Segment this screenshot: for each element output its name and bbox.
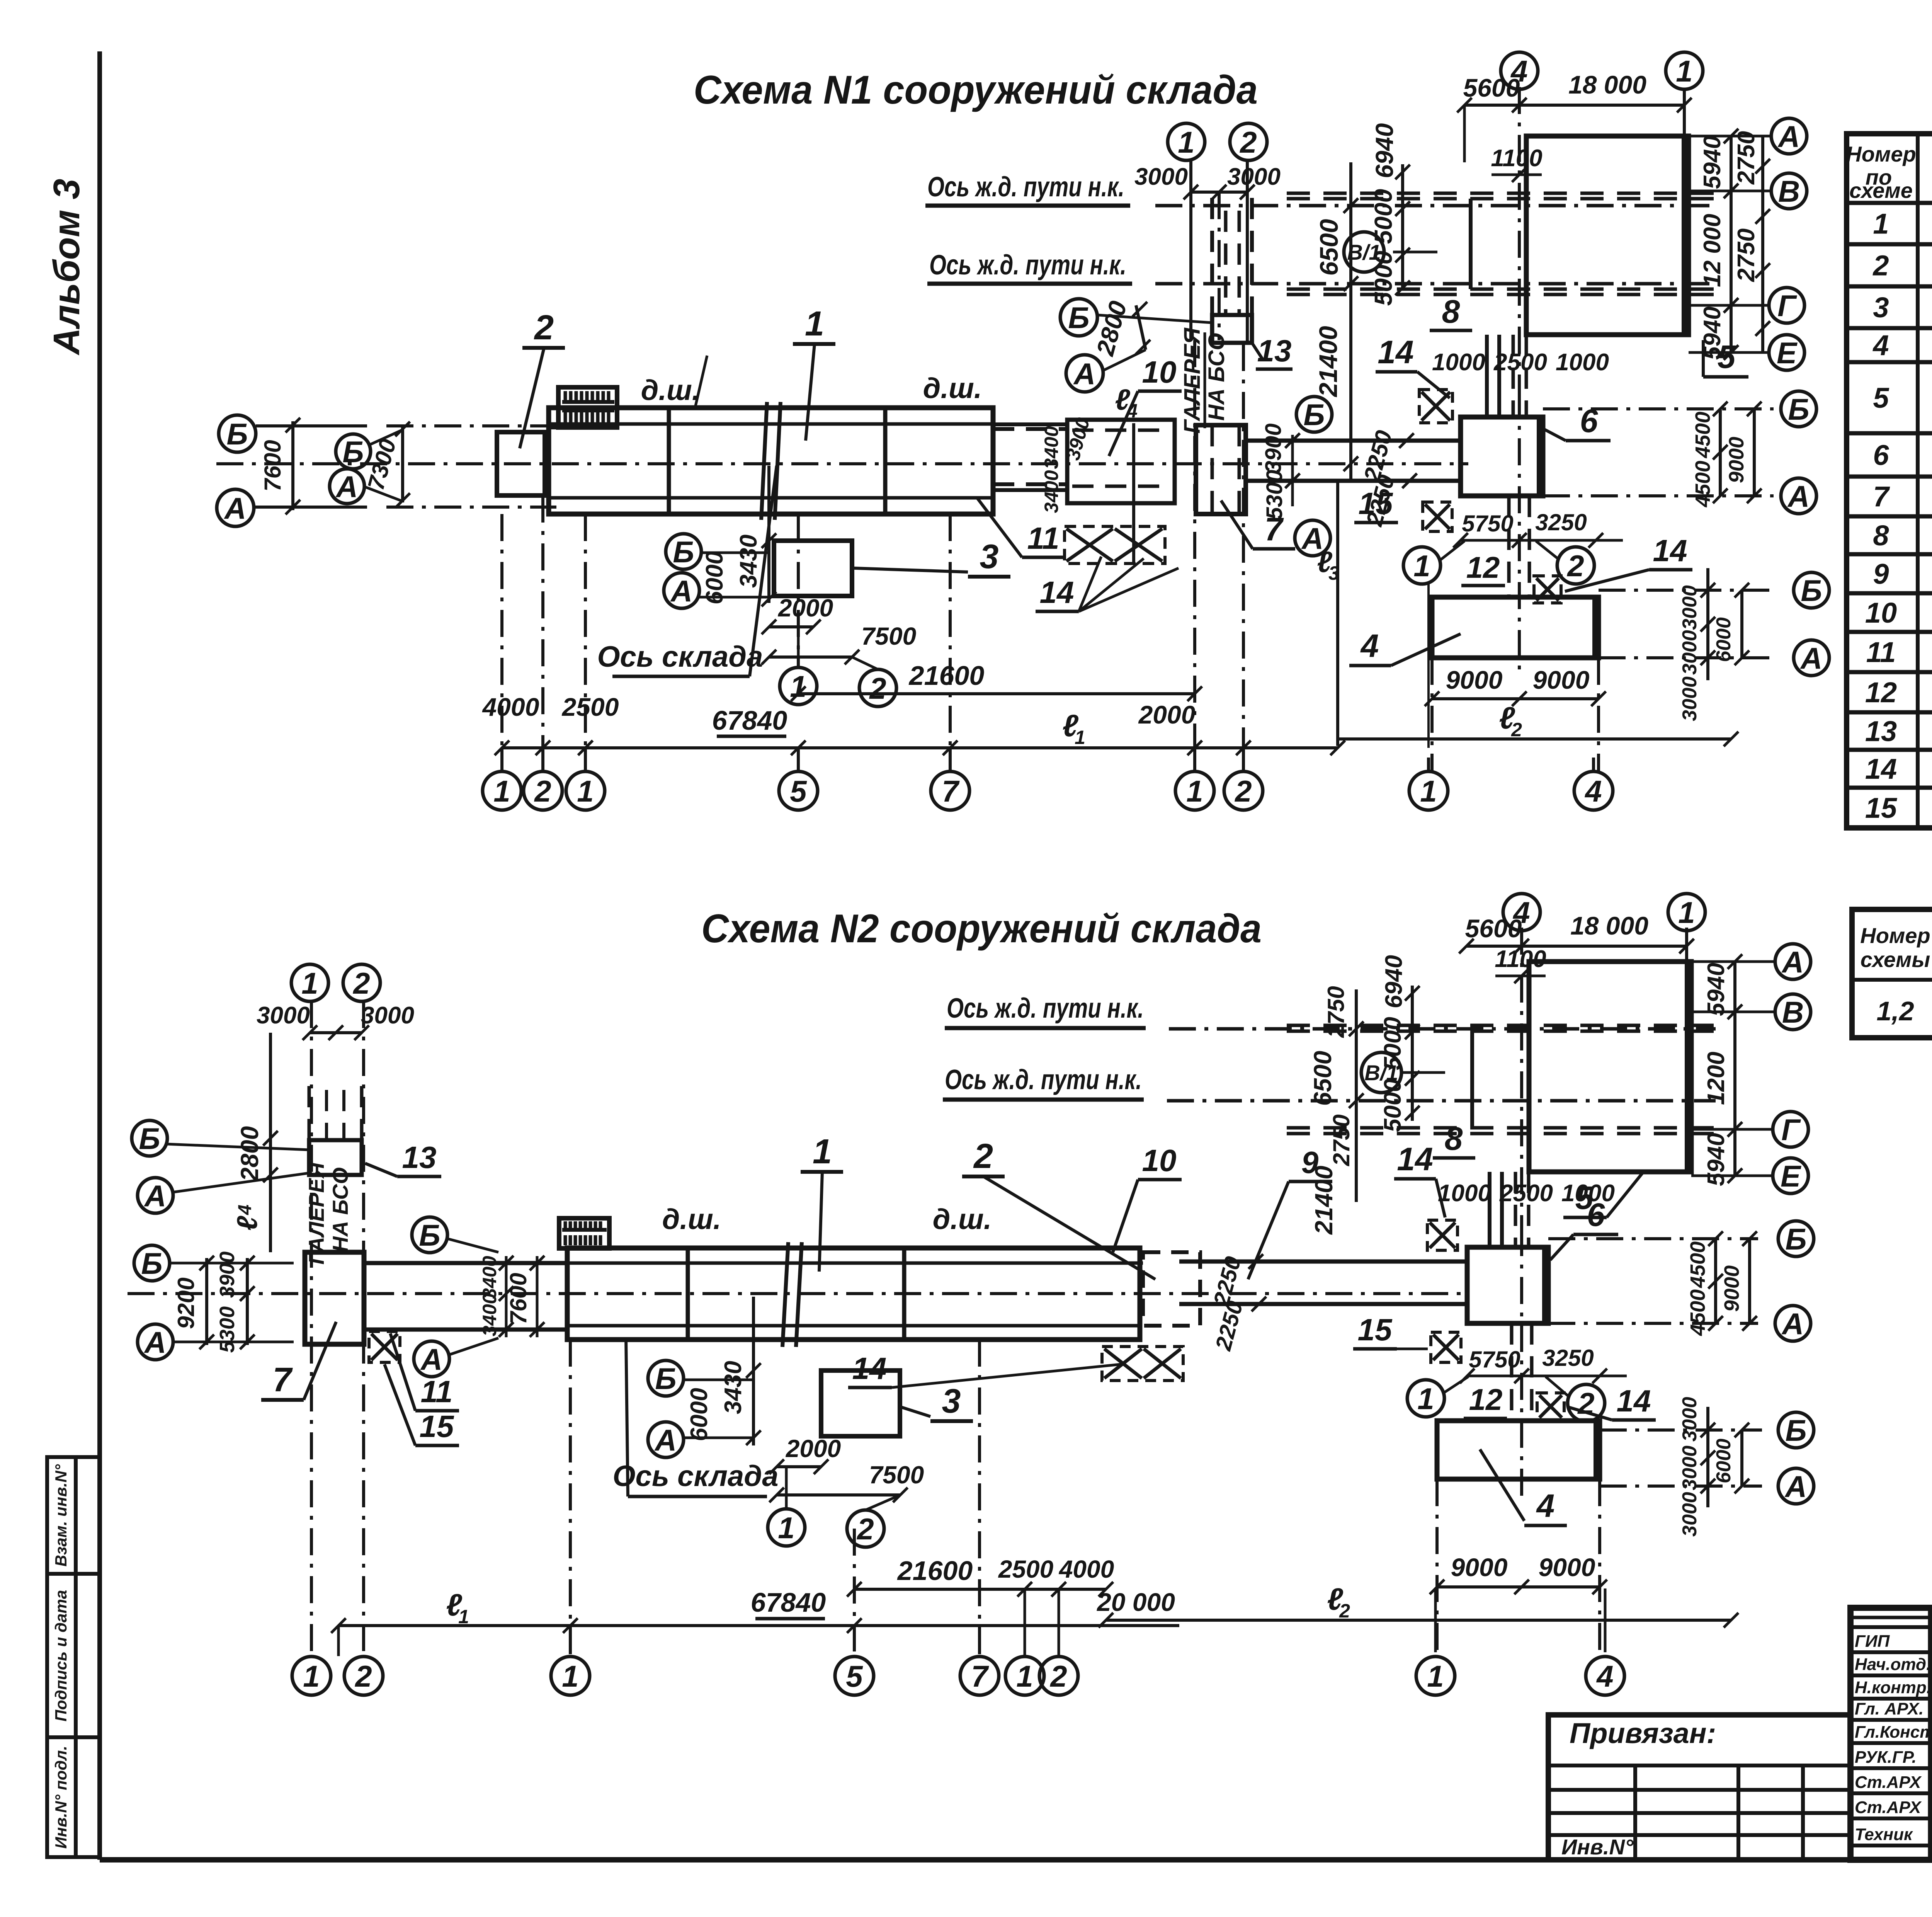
svg-text:5940: 5940 (1703, 1133, 1730, 1186)
svg-text:1: 1 (1678, 896, 1695, 930)
S2 main building (567, 1248, 1140, 1340)
svg-text:А: А (1784, 1469, 1807, 1503)
svg-text:Б: Б (141, 1246, 162, 1280)
svg-text:2500: 2500 (561, 693, 619, 721)
page frame bottom border (100, 1857, 1932, 1863)
S1 gallery to BSO (dashed) (1210, 198, 1214, 315)
svg-text:д.ш.: д.ш. (923, 372, 982, 404)
svg-text:5300: 5300 (216, 1306, 239, 1353)
S2 dims 4500 9000 4500 (1714, 1239, 1717, 1323)
svg-text:1: 1 (1873, 208, 1889, 240)
svg-text:9000: 9000 (1451, 1553, 1508, 1582)
svg-text:4: 4 (1126, 400, 1138, 422)
svg-text:11: 11 (1866, 636, 1896, 668)
svg-text:2750: 2750 (1733, 131, 1760, 185)
S2 right circles A V G E (1775, 944, 1811, 979)
svg-text:18 000: 18 000 (1568, 70, 1646, 99)
S2 centerline (128, 1292, 1468, 1295)
svg-text:А: А (335, 470, 358, 504)
S1 circle 2 mid (1557, 547, 1594, 584)
svg-text:Е: Е (1777, 336, 1798, 370)
S2 building 5 (1529, 962, 1691, 1172)
svg-text:7600: 7600 (260, 440, 286, 491)
S2 building 7 (305, 1252, 364, 1344)
explication table grid (1847, 134, 1932, 828)
S2 conveyor from building to 6 (1179, 1260, 1467, 1264)
svg-text:схемы: схемы (1861, 947, 1930, 972)
S1 hatch 14 lower (1534, 576, 1561, 603)
svg-text:9000: 9000 (1539, 1553, 1595, 1582)
svg-text:Б: Б (139, 1122, 160, 1156)
svg-text:Взам. инв.N°: Взам. инв.N° (52, 1464, 70, 1566)
svg-text:13: 13 (1865, 715, 1897, 747)
svg-text:3000: 3000 (1679, 1492, 1701, 1537)
S1 hatch 11 wide (1065, 526, 1165, 564)
svg-text:4500: 4500 (1686, 1289, 1709, 1336)
svg-text:3430: 3430 (735, 535, 762, 588)
S2 bottom circles (292, 1657, 331, 1695)
S2 vertical conveyor to 6 (1488, 1172, 1492, 1247)
svg-text:6: 6 (1873, 439, 1889, 471)
svg-text:6000: 6000 (686, 1388, 713, 1441)
svg-text:7: 7 (942, 774, 960, 808)
svg-text:3400: 3400 (1041, 470, 1062, 513)
svg-text:Подпись и дата: Подпись и дата (52, 1590, 70, 1721)
svg-text:ℓ: ℓ (231, 1216, 263, 1231)
S1 conveyor 9 horizontal (1247, 439, 1461, 443)
svg-text:1000: 1000 (1556, 349, 1609, 376)
svg-text:6940: 6940 (1371, 123, 1398, 178)
S1 l2 dim line (1338, 737, 1731, 741)
svg-text:21600: 21600 (908, 661, 985, 691)
svg-text:Ось ж.д. пути н.к.: Ось ж.д. пути н.к. (945, 1064, 1142, 1095)
svg-text:4: 4 (1596, 1659, 1613, 1693)
svg-text:15: 15 (1359, 486, 1393, 521)
svg-text:5600: 5600 (1465, 914, 1522, 943)
svg-text:Б: Б (1068, 301, 1089, 335)
svg-text:12: 12 (1865, 676, 1897, 708)
svg-text:1100: 1100 (1491, 145, 1542, 172)
S1 main storage building 1 (549, 408, 993, 514)
S2 l2 dim (1106, 1619, 1731, 1622)
S1 building vertical dividers (667, 408, 671, 514)
svg-text:1: 1 (1676, 54, 1692, 88)
svg-text:3000: 3000 (1679, 1445, 1701, 1490)
svg-text:3: 3 (1328, 562, 1339, 584)
svg-text:5: 5 (846, 1659, 863, 1693)
svg-text:А: А (670, 574, 692, 608)
S2 hatch lower (1537, 1393, 1564, 1420)
svg-text:5940: 5940 (1699, 136, 1726, 189)
svg-text:8: 8 (1873, 519, 1889, 552)
S1 building5 rail centerline verticals (1518, 87, 1521, 390)
S2 l1 dim (338, 1624, 1179, 1627)
svg-text:7500: 7500 (861, 622, 916, 650)
S1 mid circles 1 2 (780, 667, 817, 705)
svg-text:1: 1 (1016, 1659, 1033, 1693)
svg-text:14: 14 (1617, 1384, 1651, 1418)
svg-text:5940: 5940 (1703, 963, 1730, 1016)
S2 break symbol (782, 1242, 788, 1347)
S1 rail axis 1 line (1155, 204, 1716, 208)
svg-text:Б: Б (419, 1218, 440, 1252)
svg-text:10: 10 (1865, 597, 1897, 629)
svg-text:5: 5 (1873, 382, 1889, 414)
svg-text:1000: 1000 (1432, 349, 1485, 376)
svg-text:4500: 4500 (1686, 1241, 1709, 1288)
svg-text:18 000: 18 000 (1570, 911, 1648, 940)
svg-text:д.ш.: д.ш. (662, 1203, 721, 1235)
svg-text:3400: 3400 (1041, 426, 1062, 469)
svg-text:6000: 6000 (1713, 617, 1735, 662)
S2 top circles 4 1 (1503, 894, 1540, 931)
svg-text:14: 14 (852, 1351, 887, 1386)
S1 vertical gallery 12 dashes (1507, 496, 1511, 597)
svg-text:7: 7 (1873, 481, 1890, 513)
svg-text:2000: 2000 (1138, 700, 1196, 729)
svg-text:1: 1 (778, 1511, 794, 1545)
svg-text:2000: 2000 (786, 1435, 841, 1462)
svg-text:3250: 3250 (1535, 509, 1587, 535)
svg-text:10: 10 (1142, 355, 1177, 389)
svg-text:Н.контр.: Н.контр. (1855, 1678, 1931, 1697)
svg-text:А: А (1800, 641, 1822, 675)
svg-text:Б: Б (226, 417, 248, 451)
svg-text:Номер: Номер (1846, 142, 1916, 166)
S2 dims 5940 1200 5940 (1733, 962, 1736, 1176)
svg-text:5: 5 (790, 774, 807, 808)
svg-text:А: А (420, 1342, 442, 1376)
S2 verticals through 5 (1520, 928, 1523, 1229)
svg-text:14: 14 (1378, 334, 1413, 370)
svg-text:А: А (224, 491, 246, 525)
svg-text:2: 2 (1872, 250, 1889, 282)
svg-text:2: 2 (1049, 1659, 1067, 1693)
svg-text:Б: Б (1785, 1413, 1806, 1447)
svg-text:6500: 6500 (1315, 219, 1343, 276)
title block outer (1850, 1608, 1932, 1860)
svg-text:3000: 3000 (361, 1002, 414, 1029)
svg-text:10: 10 (1142, 1143, 1177, 1178)
svg-text:1: 1 (1420, 774, 1437, 808)
S2 building 4 (1437, 1421, 1600, 1479)
S2 dashed box right end (1143, 1252, 1200, 1326)
svg-text:А: А (1787, 479, 1810, 513)
S2 gallery to BSO dashed (308, 1086, 311, 1140)
S1 building 2 (tension point) (497, 432, 545, 495)
svg-text:5750: 5750 (1462, 511, 1513, 536)
svg-text:6500: 6500 (1309, 1051, 1337, 1106)
S1 right axis circles A B G E (1771, 118, 1807, 154)
S1 dims 5940 2750 12000 2750 5940 (1730, 136, 1733, 352)
svg-text:Схема N2 сооружений склада: Схема N2 сооружений склада (701, 906, 1262, 951)
S2 mid circles 1 2 (768, 1509, 805, 1546)
svg-text:3000: 3000 (257, 1002, 310, 1029)
svg-text:6940: 6940 (1381, 955, 1407, 1008)
title block signature rows (1850, 1625, 1932, 1629)
svg-text:3000: 3000 (1679, 630, 1701, 675)
svg-text:1: 1 (577, 774, 594, 808)
S2 circles B A right of 6 (1548, 1237, 1758, 1240)
svg-text:14: 14 (1040, 575, 1074, 609)
svg-text:3: 3 (980, 537, 999, 575)
svg-text:7500: 7500 (869, 1461, 924, 1489)
svg-text:Гл. АРХ.: Гл. АРХ. (1855, 1699, 1923, 1718)
svg-text:Схема N1 сооружений склада: Схема N1 сооружений склада (694, 68, 1258, 112)
svg-text:ГАЛЕРЕЯ: ГАЛЕРЕЯ (304, 1162, 328, 1265)
svg-text:5: 5 (1718, 339, 1736, 375)
S1 rail axis 2 line (1155, 282, 1716, 286)
svg-text:НА БСО: НА БСО (1204, 333, 1229, 421)
S1 dim 21600 (798, 692, 1195, 695)
svg-text:Номер: Номер (1860, 923, 1930, 948)
svg-text:2750: 2750 (1733, 228, 1760, 282)
S1 long verticals (500, 514, 503, 748)
S1 building 3 (vent room) (774, 541, 852, 596)
S1 axis B line through 6 (1543, 407, 1774, 410)
S2 big hatch 14 left (1102, 1347, 1183, 1381)
svg-text:А: А (1781, 945, 1804, 979)
S1 top axis circle 1 (1666, 52, 1703, 89)
S1 bottom axis circles (483, 771, 521, 810)
S1 dim 6500/21400 vertical (1349, 162, 1352, 479)
S1 axis B/A right of 4 (1599, 589, 1777, 592)
S1 l3 vertical dim (1336, 479, 1339, 746)
S1 axis A line right of 6 (1543, 494, 1774, 497)
svg-text:1: 1 (301, 966, 318, 1000)
S1 bottom verticals to circles (500, 748, 503, 772)
svg-text:2500: 2500 (1499, 1180, 1553, 1207)
S2 bottom verticals (310, 1001, 313, 1656)
S2 circles B A right of 4 (1600, 1428, 1762, 1432)
S1 centerline (216, 462, 1468, 465)
svg-text:А: А (654, 1423, 677, 1457)
S1 axis circle 1 top (1168, 123, 1205, 160)
S1 box 7 (1196, 425, 1246, 514)
svg-text:А: А (1073, 357, 1095, 391)
svg-text:2: 2 (1566, 549, 1584, 583)
svg-text:11: 11 (420, 1374, 452, 1409)
svg-text:67840: 67840 (751, 1587, 826, 1617)
svg-text:3: 3 (942, 1382, 961, 1420)
S2 l4 vertical dim (269, 1033, 272, 1252)
svg-text:Альбом 3: Альбом 3 (46, 179, 87, 355)
svg-text:4: 4 (1872, 329, 1889, 361)
svg-text:2: 2 (354, 1659, 372, 1693)
svg-text:9000: 9000 (1725, 437, 1748, 483)
S2 dividers (686, 1248, 690, 1340)
svg-text:4000: 4000 (482, 693, 539, 721)
svg-text:Г: Г (1781, 1113, 1801, 1147)
svg-text:Ось склада: Ось склада (597, 640, 763, 673)
svg-text:4000: 4000 (1058, 1555, 1114, 1583)
svg-text:2: 2 (869, 671, 886, 705)
svg-text:2: 2 (1339, 1600, 1350, 1622)
S1 dims 3000 3000 6000 (1706, 568, 1709, 680)
title block signature columns (1928, 1608, 1932, 1860)
S1 vertical conveyor 8 lines (1485, 335, 1489, 417)
svg-text:3250: 3250 (1542, 1345, 1594, 1371)
svg-text:3400: 3400 (479, 1293, 500, 1336)
S1 stairs block (558, 387, 617, 427)
svg-text:8: 8 (1445, 1120, 1463, 1157)
svg-text:Инв.N° подл.: Инв.N° подл. (52, 1746, 70, 1849)
S1 axis circle B left-gallery (1060, 299, 1097, 336)
svg-text:2: 2 (1511, 719, 1522, 741)
svg-text:21600: 21600 (897, 1556, 973, 1586)
svg-text:2500: 2500 (998, 1555, 1053, 1583)
svg-text:4: 4 (235, 1205, 255, 1216)
svg-text:1,2: 1,2 (1876, 996, 1914, 1026)
svg-text:Нач.отд.: Нач.отд. (1855, 1655, 1931, 1674)
svg-text:Б: Б (1801, 574, 1822, 608)
svg-text:67840: 67840 (712, 705, 787, 735)
S1 circle 1 mid (1403, 547, 1440, 584)
S1 axis circle A left-gallery (1066, 355, 1103, 392)
S2 right rail dims (1355, 989, 1358, 1202)
svg-text:Б: Б (673, 535, 694, 569)
svg-text:А: А (1781, 1307, 1804, 1341)
S1 circles B A near 7 (1296, 397, 1332, 432)
svg-text:Ст.АРХ: Ст.АРХ (1855, 1798, 1922, 1817)
svg-text:9000: 9000 (1446, 666, 1503, 694)
S2 vertical gallery 12 (1510, 1323, 1514, 1421)
svg-text:5000: 5000 (1369, 251, 1397, 306)
svg-text:схеме: схеме (1849, 178, 1913, 203)
S1 circle V/1 (1344, 232, 1384, 272)
svg-text:1: 1 (1417, 1382, 1434, 1416)
S2 dims 6940 5000 5000 (1411, 986, 1414, 1121)
S2 building 6 (1467, 1247, 1548, 1323)
svg-text:Б: Б (1788, 392, 1809, 426)
svg-text:Техник: Техник (1855, 1825, 1913, 1844)
svg-text:3900: 3900 (1261, 423, 1286, 473)
svg-text:8: 8 (1442, 293, 1460, 330)
svg-text:Ось ж.д. пути н.к.: Ось ж.д. пути н.к. (929, 250, 1126, 281)
svg-text:1100: 1100 (1495, 946, 1546, 972)
svg-text:Б: Б (1303, 398, 1325, 432)
svg-text:4: 4 (1360, 628, 1379, 664)
svg-text:А: А (144, 1325, 166, 1359)
S1 building 5 (mechanized receiving point) (1526, 136, 1689, 335)
svg-text:1: 1 (813, 1132, 832, 1171)
svg-text:3000: 3000 (1679, 676, 1701, 721)
svg-text:2750: 2750 (1328, 1114, 1354, 1166)
svg-text:А: А (144, 1179, 166, 1213)
svg-text:2: 2 (534, 308, 554, 347)
svg-text:15: 15 (1865, 792, 1898, 824)
S1 axis circle 2 top (1230, 123, 1267, 160)
svg-text:15: 15 (1358, 1313, 1393, 1347)
S2 circles 1 2 mid (1407, 1380, 1444, 1417)
S1 top axis circle 4 (1501, 52, 1538, 89)
svg-text:3000: 3000 (1134, 163, 1188, 190)
svg-text:Привязан:: Привязан: (1570, 1717, 1716, 1749)
svg-text:13: 13 (402, 1140, 437, 1175)
svg-text:Ст.АРХ: Ст.АРХ (1855, 1773, 1922, 1792)
svg-text:2: 2 (973, 1137, 993, 1176)
S2 circles B A upper-left (132, 1120, 167, 1156)
svg-text:В: В (1782, 995, 1804, 1029)
svg-text:Ось ж.д. пути н.к.: Ось ж.д. пути н.к. (927, 172, 1124, 203)
svg-text:Б: Б (655, 1362, 676, 1396)
svg-text:1: 1 (1075, 727, 1085, 748)
svg-text:А: А (1777, 119, 1800, 153)
svg-text:РУК.ГР.: РУК.ГР. (1855, 1748, 1917, 1767)
svg-text:1: 1 (805, 305, 824, 343)
S2 circles B A lower-left (134, 1245, 170, 1281)
S2 axis circle 1 top (291, 964, 328, 1001)
svg-text:Инв.N°: Инв.N° (1561, 1835, 1634, 1859)
svg-text:Е: Е (1781, 1159, 1801, 1193)
svg-text:7: 7 (971, 1659, 989, 1693)
svg-text:20 000: 20 000 (1096, 1588, 1175, 1616)
svg-text:д.ш.: д.ш. (641, 374, 700, 406)
svg-text:3000: 3000 (1679, 585, 1701, 630)
S1 axis A dashdot line (386, 506, 556, 509)
svg-text:1: 1 (1427, 1659, 1444, 1693)
S2 stairs block (559, 1218, 609, 1248)
svg-text:3000: 3000 (1679, 1397, 1701, 1442)
S1 building 4 (auto receiving) (1432, 597, 1599, 658)
svg-text:7600: 7600 (505, 1273, 531, 1324)
svg-text:14: 14 (1865, 753, 1897, 785)
S2 building 3 (821, 1371, 900, 1436)
svg-text:4500: 4500 (1691, 461, 1714, 507)
svg-text:ГИП: ГИП (1855, 1632, 1890, 1651)
svg-text:Ось ж.д. пути н.к.: Ось ж.д. пути н.к. (947, 993, 1144, 1024)
svg-text:7: 7 (273, 1360, 293, 1399)
svg-text:2: 2 (856, 1512, 874, 1546)
svg-text:1: 1 (458, 1606, 469, 1628)
privyazan block (1548, 1715, 1850, 1860)
S2 axis circle 2 top (343, 964, 380, 1001)
svg-text:Г: Г (1777, 289, 1797, 323)
svg-text:13: 13 (1257, 334, 1292, 368)
S2 conveyor 11 lines (364, 1261, 567, 1265)
S2 box 13 (309, 1140, 362, 1175)
svg-text:9: 9 (1873, 558, 1889, 590)
svg-text:6000: 6000 (1713, 1439, 1735, 1483)
svg-text:НА БСО: НА БСО (328, 1167, 352, 1252)
svg-text:15: 15 (420, 1409, 454, 1444)
svg-text:3430: 3430 (720, 1361, 747, 1414)
svg-text:12 000: 12 000 (1699, 214, 1726, 287)
S1 axis B dashdot line (386, 424, 556, 427)
S1 dims 4500 9000 4500 (1719, 409, 1722, 496)
svg-text:4: 4 (1584, 774, 1602, 808)
svg-text:9200: 9200 (173, 1277, 199, 1329)
S2 circles B A mid (412, 1217, 447, 1253)
S1 bottom dim line (502, 746, 1338, 749)
svg-text:Ось склада: Ось склада (612, 1460, 778, 1493)
svg-text:ГАЛЕРЕЯ: ГАЛЕРЕЯ (1180, 327, 1205, 434)
svg-text:1000: 1000 (1438, 1180, 1491, 1207)
svg-text:21400: 21400 (1310, 1166, 1338, 1235)
S1 box 13 (shchitovaya) (1212, 315, 1252, 343)
svg-text:1: 1 (303, 1659, 320, 1693)
S2 hatch 15 (369, 1331, 400, 1362)
svg-text:4: 4 (1536, 1488, 1555, 1524)
S2 circles B A near 3 (648, 1360, 684, 1396)
svg-text:2: 2 (534, 774, 551, 808)
S1 hatch platform 14 top (1419, 390, 1452, 423)
svg-text:11: 11 (1027, 521, 1059, 555)
svg-text:2000: 2000 (778, 594, 833, 622)
S2 dims 3000 3000 6000 (1706, 1407, 1709, 1507)
svg-text:3900: 3900 (216, 1251, 239, 1298)
svg-text:1: 1 (1186, 774, 1203, 808)
